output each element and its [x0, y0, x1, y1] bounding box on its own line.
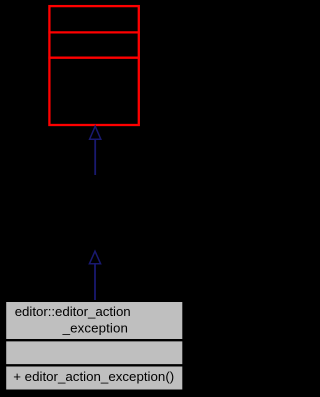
svg-text:editor::editor_action: editor::editor_action [15, 304, 131, 319]
svg-text:+ editor_action_exception(): + editor_action_exception() [13, 369, 174, 384]
svg-text:_exception: _exception [62, 320, 128, 335]
